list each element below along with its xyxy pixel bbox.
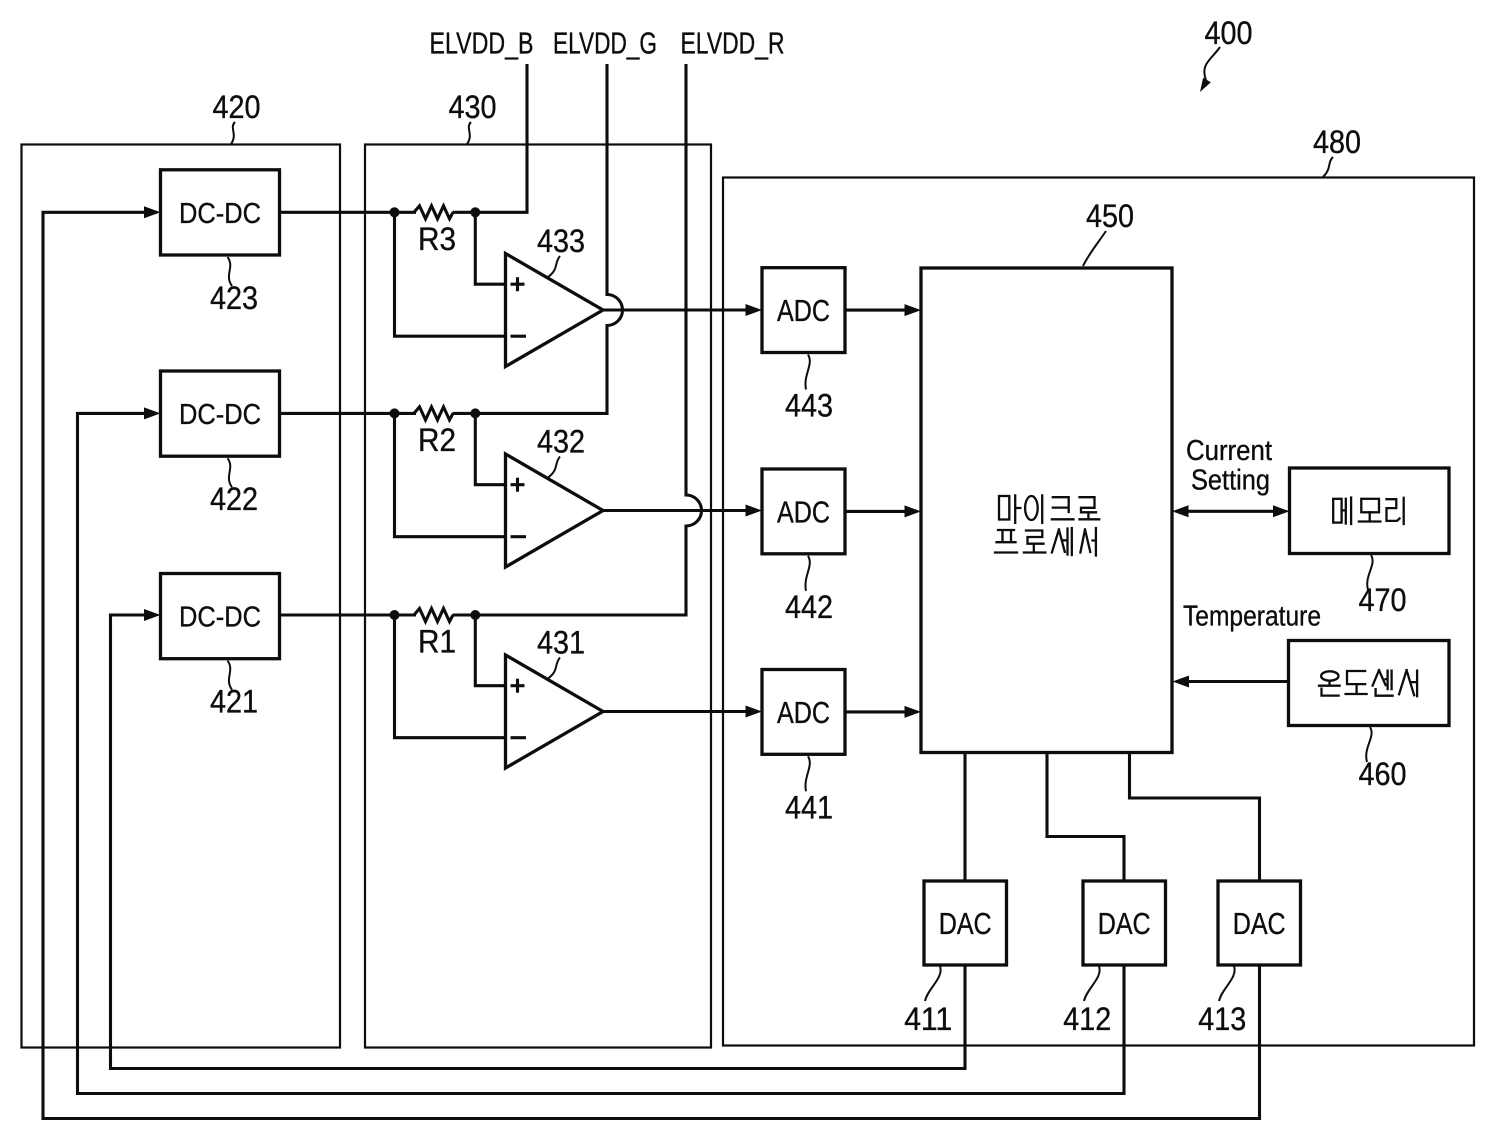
wire ELVDD_B rail (475, 64, 527, 212)
text 온도센서 (temperature sensor) inside box 460 (1319, 670, 1417, 696)
wire DAC 412 feedback to DC-DC 422 (78, 413, 1125, 1093)
wire node to op-amp 432 + input (475, 413, 505, 484)
DAC 412 (1083, 881, 1166, 965)
leader for label 422 (228, 458, 233, 487)
svg-text:ADC: ADC (777, 695, 830, 730)
leader for label 470 (1367, 555, 1372, 590)
leader for label 442 (805, 556, 809, 591)
node left of R2 (390, 408, 400, 418)
DC-DC converter 421 (161, 574, 280, 659)
svg-text:433: 433 (537, 223, 585, 259)
op-amp 431 (506, 655, 604, 768)
wire ADC 443 to microprocessor (845, 309, 917, 312)
wire microprocessor to DAC 412 (1047, 753, 1124, 882)
memory box 470 (1290, 468, 1450, 554)
wire Current Setting (bidirectional) (1186, 510, 1276, 513)
svg-text:420: 420 (213, 89, 261, 125)
leader for label 412 (1084, 966, 1100, 1001)
leader for label 423 (228, 257, 233, 286)
svg-text:442: 442 (785, 589, 833, 625)
svg-text:R1: R1 (418, 624, 456, 660)
svg-text:R2: R2 (418, 422, 456, 458)
enclosure box 480 (controller block) (723, 178, 1474, 1046)
node left of R1 (390, 610, 400, 620)
leader for label 421 (228, 661, 233, 690)
resistor R3 (414, 206, 453, 219)
leader for label 432 (548, 457, 560, 478)
resistor R2 (414, 407, 453, 420)
svg-text:413: 413 (1198, 1001, 1246, 1037)
enclosure box 430 (sensing block) (365, 145, 711, 1048)
svg-text:DAC: DAC (939, 906, 992, 941)
op-amp 432 (506, 454, 604, 567)
DC-DC converter 422 (161, 371, 280, 456)
svg-text:432: 432 (537, 424, 585, 460)
leader for label 460 (1366, 727, 1371, 762)
leader for label 441 (805, 756, 809, 791)
ADC 443 (762, 268, 845, 353)
leader arrow for 400 (1204, 47, 1220, 80)
wire ELVDD_R rail (hops over op-amp 432 output) (475, 64, 701, 615)
wire DC-DC 421 output (280, 613, 417, 616)
node right of R1 (470, 610, 480, 620)
resistor R1 (414, 609, 453, 622)
svg-text:422: 422 (210, 481, 258, 517)
wire op-amp 431 output to ADC 441 (603, 710, 758, 713)
svg-text:DC-DC: DC-DC (179, 198, 261, 230)
DAC 411 (924, 881, 1007, 965)
leader for label 420 (231, 122, 235, 144)
svg-text:430: 430 (449, 89, 497, 125)
node right of R3 (470, 207, 480, 217)
temperature sensor box 460 (1289, 641, 1450, 726)
ADC 442 (762, 469, 845, 554)
svg-text:Temperature: Temperature (1183, 601, 1321, 633)
leader for label 411 (925, 966, 941, 1001)
wire node to op-amp 433 - input (feedback) (395, 212, 506, 336)
node right of R2 (470, 408, 480, 418)
text Current Setting (1186, 435, 1272, 497)
leader for label 443 (805, 355, 809, 390)
wire DAC 413 feedback to DC-DC 423 (43, 212, 1260, 1118)
svg-text:400: 400 (1205, 15, 1253, 51)
svg-text:Current: Current (1186, 435, 1272, 467)
wire op-amp 433 output to ADC 443 (603, 308, 758, 311)
svg-text:431: 431 (537, 625, 585, 661)
leader for label 480 (1323, 157, 1333, 177)
leader for label 431 (548, 658, 560, 679)
text 프로세서 (processor) inside microprocessor 450 (995, 528, 1096, 556)
svg-text:DAC: DAC (1098, 906, 1151, 941)
svg-text:ELVDD_R: ELVDD_R (681, 26, 785, 61)
svg-text:450: 450 (1086, 198, 1134, 234)
ADC 441 (762, 670, 845, 755)
enclosure box 420 (DC-DC converter block) (22, 145, 341, 1048)
svg-text:423: 423 (210, 280, 258, 316)
wire microprocessor to DAC 411 (963, 753, 966, 882)
svg-text:470: 470 (1359, 582, 1407, 618)
leader for label 450 (1083, 231, 1106, 266)
svg-text:411: 411 (904, 1001, 952, 1037)
svg-text:R3: R3 (418, 221, 456, 257)
leader for label 433 (548, 256, 560, 277)
svg-text:DC-DC: DC-DC (179, 399, 261, 431)
svg-text:ELVDD_G: ELVDD_G (553, 26, 657, 61)
wire node to op-amp 432 - input (feedback) (395, 413, 506, 536)
wire DAC 411 feedback to DC-DC 421 (111, 615, 966, 1069)
svg-text:421: 421 (210, 684, 258, 720)
leader for label 430 (467, 122, 471, 144)
svg-text:ELVDD_B: ELVDD_B (430, 26, 534, 61)
wire DC-DC 422 output (280, 412, 417, 415)
wire op-amp 432 output to ADC 442 (603, 509, 758, 512)
svg-text:412: 412 (1063, 1001, 1111, 1037)
svg-text:Setting: Setting (1191, 465, 1270, 497)
text 메모리 (memory) inside box 470 (1333, 498, 1404, 525)
svg-text:ADC: ADC (777, 494, 830, 529)
DAC 413 (1218, 881, 1301, 965)
wire ADC 441 to microprocessor (845, 710, 917, 713)
DC-DC converter 423 (161, 170, 280, 255)
microprocessor 450 (921, 268, 1172, 753)
svg-text:DC-DC: DC-DC (179, 602, 261, 634)
wire node to op-amp 431 + input (475, 615, 505, 686)
wire DC-DC 423 output (280, 211, 417, 214)
wire node to op-amp 433 + input (475, 212, 505, 284)
wire temperature sensor to microprocessor (1186, 680, 1289, 683)
svg-text:460: 460 (1359, 756, 1407, 792)
svg-text:441: 441 (785, 789, 833, 825)
wire ELVDD_G rail (hops over op-amp 433 output) (475, 64, 622, 413)
svg-text:ADC: ADC (777, 293, 830, 328)
svg-text:480: 480 (1313, 124, 1361, 160)
svg-text:443: 443 (785, 388, 833, 424)
wire node to op-amp 431 - input (feedback) (395, 615, 506, 738)
wire microprocessor to DAC 413 (1130, 753, 1260, 882)
node left of R3 (390, 207, 400, 217)
leader for label 413 (1219, 966, 1235, 1001)
wire ADC 442 to microprocessor (845, 510, 917, 513)
svg-text:DAC: DAC (1233, 906, 1286, 941)
op-amp 433 (506, 254, 604, 367)
text 마이크로 (micro) inside microprocessor 450 (999, 495, 1099, 523)
